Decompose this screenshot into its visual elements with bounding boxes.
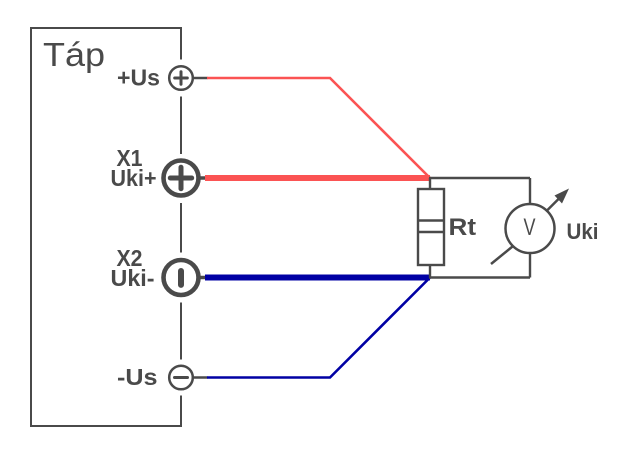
svg-text:+Us: +Us [117, 65, 160, 91]
terminal X2 Uki- [164, 260, 207, 295]
resistor Rt inner line 2 [418, 231, 444, 233]
wire red thick from Uki+ to node A [205, 175, 430, 181]
node B bottom junction [429, 265, 431, 278]
wire box right edge segment between X1 and X2 [180, 203, 182, 253]
svg-text:Rt: Rt [449, 214, 477, 241]
wire voltmeter bottom lead [529, 253, 531, 278]
svg-text:Táp: Táp [43, 36, 105, 73]
svg-text:Uki-: Uki- [111, 265, 155, 291]
voltmeter V circle [506, 204, 555, 253]
wire blue thick from Uki- to node B [205, 275, 430, 281]
svg-text:Uki: Uki [567, 219, 599, 244]
terminal -Us [169, 366, 207, 390]
terminal X1 Uki+ [164, 161, 207, 196]
wire blue thin from -Us to node B [207, 278, 430, 378]
svg-text:-Us: -Us [117, 364, 158, 390]
voltmeter arrow upper segment [546, 194, 564, 212]
svg-text:Uki+: Uki+ [111, 165, 157, 191]
terminal +Us [169, 66, 207, 90]
wire voltmeter top lead [529, 178, 531, 204]
wire bottom rail node B to voltmeter [429, 276, 530, 278]
wire red thin from +Us to node A [207, 78, 430, 178]
svg-text:V: V [524, 214, 536, 241]
node A top junction [429, 178, 431, 189]
resistor Rt inner line 1 [418, 219, 444, 221]
wire box right edge segment between X2 and -Us [180, 303, 182, 360]
voltmeter arrowhead [555, 189, 570, 204]
wire box right edge segment between +Us and X1 [180, 97, 182, 155]
resistor Rt body [418, 189, 444, 265]
wire top rail node A to voltmeter [429, 177, 530, 179]
power supply box Táp [31, 28, 181, 426]
voltmeter arrow lower segment [491, 247, 513, 265]
